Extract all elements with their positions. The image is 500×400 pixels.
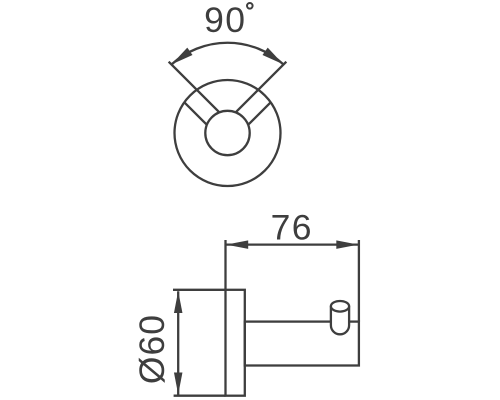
svg-text:90: 90: [204, 0, 246, 40]
svg-text:76: 76: [271, 208, 313, 248]
svg-text:Ø60: Ø60: [132, 314, 172, 384]
